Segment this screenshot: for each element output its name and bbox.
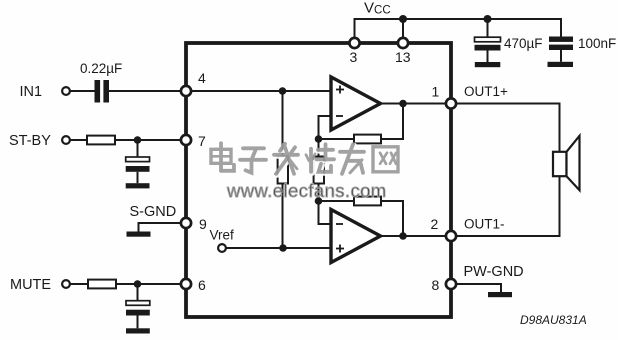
resistor R4 (A1 feedback) [354, 135, 381, 144]
pin 13 [398, 38, 408, 48]
op-amp A2 [331, 210, 381, 263]
wire: C1 to pin 4 [109, 90, 186, 92]
ground (470uF) [475, 62, 501, 67]
terminal MUTE [62, 280, 70, 288]
junction: node A (input / bias resistor) [279, 87, 287, 95]
svg-text:4: 4 [198, 70, 206, 86]
svg-text:470µF: 470µF [504, 36, 543, 51]
wire: node C to R4 [319, 138, 355, 140]
svg-text:PW-GND: PW-GND [464, 264, 524, 280]
ground (S-GND) [127, 232, 151, 237]
junction: VCC / 470uF [484, 15, 492, 23]
wire: A1 inverting input [319, 116, 332, 139]
svg-text:100nF: 100nF [578, 36, 616, 51]
pin 8 [446, 279, 456, 289]
pin 2 [446, 231, 456, 241]
op-amp A1 [331, 77, 381, 130]
wire: ST-BY to R1 [70, 139, 87, 141]
ground (PW-GND) [488, 292, 512, 297]
speaker LS1 [553, 136, 580, 190]
wire: IN1 to C1 [70, 90, 95, 92]
capacitor C1 0.22uF [95, 80, 110, 103]
resistor R2 (MUTE) [88, 280, 116, 289]
wire: A2 output to pin 2 [381, 235, 452, 237]
wire: VCC rail [355, 19, 562, 43]
svg-text:8: 8 [432, 277, 440, 293]
svg-text:S-GND: S-GND [130, 204, 177, 220]
capacitor C2 470uF [475, 19, 501, 62]
svg-text:13: 13 [395, 49, 411, 65]
svg-text:0.22µF: 0.22µF [80, 61, 122, 76]
svg-text:2: 2 [431, 216, 439, 232]
pin 7 [181, 135, 191, 145]
svg-text:9: 9 [199, 216, 207, 232]
pin 4 [181, 86, 191, 96]
junction: MUTE / C5 [134, 280, 142, 288]
wire: pin 4 to op-amp A1 + input [186, 90, 331, 92]
watermark (decorative) [211, 143, 399, 175]
terminal ST-BY [62, 136, 70, 144]
ground (100nF) [548, 62, 574, 67]
terminal IN1 [62, 87, 70, 95]
svg-text:OUT1-: OUT1- [464, 217, 505, 232]
junction: A2 output / feedback [399, 232, 407, 240]
wire: MUTE to R2 [70, 283, 88, 285]
svg-text:1: 1 [432, 84, 440, 100]
resistor R1 (ST-BY) [87, 136, 115, 145]
junction: node D (A2 feedback) [315, 197, 323, 205]
pin 9 [181, 218, 191, 228]
wire: A1 output to pin 1 [381, 103, 452, 105]
svg-text:OUT1+: OUT1+ [464, 84, 508, 99]
junction: node C (A1 feedback) [315, 135, 323, 143]
capacitor C5 (MUTE) [126, 284, 150, 328]
pin 6 [181, 279, 191, 289]
wire: pin 8 to power ground [451, 284, 501, 292]
junction: A1 output / feedback [399, 100, 407, 108]
junction: ST-BY / C4 [134, 136, 142, 144]
svg-text:3: 3 [350, 49, 358, 65]
wire: Vref to op-amp A2 + input [226, 247, 331, 249]
resistor R5 (between feedback nodes, vertical) [314, 139, 324, 201]
svg-text:MUTE: MUTE [10, 277, 51, 293]
svg-text:Vref: Vref [210, 228, 235, 243]
svg-text:D98AU831A: D98AU831A [520, 313, 587, 327]
wire: R2 to pin 6 [116, 283, 186, 285]
wire: A2 inverting input [319, 201, 332, 224]
terminal Vref [218, 244, 226, 252]
svg-text:ST-BY: ST-BY [9, 133, 51, 149]
IC U1 outline [186, 43, 451, 317]
pin 3 [349, 38, 359, 48]
wire: R1 to pin 7 [115, 139, 186, 141]
junction: VCC / pin13 [399, 15, 407, 23]
svg-text:VCC: VCC [364, 0, 391, 17]
svg-text:7: 7 [198, 133, 206, 149]
capacitor C3 100nF [549, 37, 573, 62]
junction: node B (Vref / bias resistor) [279, 244, 287, 252]
ground (C5) [126, 328, 150, 333]
wire: pin 13 riser [402, 19, 404, 43]
capacitor C4 (ST-BY) [126, 140, 150, 183]
svg-text:www.elecfans.com: www.elecfans.com [226, 180, 387, 201]
wire: R6 to A2 output [381, 201, 403, 236]
resistor R6 (A2 feedback) [354, 197, 381, 206]
resistor R3 (input bias, vertical) [278, 91, 288, 248]
wire: pin 1 to speaker [451, 104, 560, 153]
wire: R4 to A1 output [381, 104, 403, 140]
svg-text:6: 6 [198, 277, 206, 293]
svg-text:IN1: IN1 [20, 84, 43, 100]
wire: pin 9 to signal ground [139, 223, 187, 232]
wire: speaker to pin 2 [451, 176, 560, 236]
ground (C4) [126, 183, 150, 188]
wire: node D to R6 [319, 200, 355, 202]
pin 1 [446, 98, 456, 108]
